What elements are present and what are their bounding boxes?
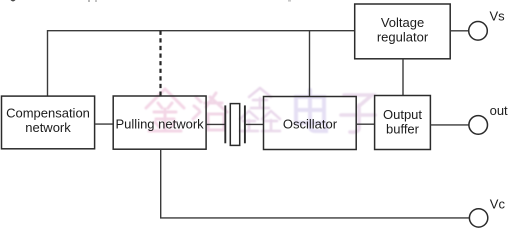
svg-text:Output: Output [383, 107, 422, 122]
svg-text:out: out [490, 103, 508, 118]
svg-text:buffer: buffer [386, 122, 420, 137]
watermark char dian [296, 90, 326, 131]
wire output buffer to out terminal [430, 124, 468, 126]
svg-text:Vc: Vc [490, 197, 506, 212]
svg-text:Voltage: Voltage [381, 15, 424, 30]
svg-text:Pulling network: Pulling network [116, 117, 205, 132]
block pulling network [113, 96, 206, 149]
svg-text:Oscillator: Oscillator [283, 117, 338, 132]
wire voltage regulator to output buffer [402, 59, 404, 96]
watermark char luo [193, 93, 227, 130]
svg-text:network: network [25, 120, 71, 135]
watermark [146, 88, 375, 132]
block oscillator [264, 97, 357, 150]
caption fragment [95, 0, 97, 2]
block output buffer [375, 96, 431, 150]
svg-text:Vs: Vs [490, 9, 506, 24]
block compensation network [2, 96, 95, 149]
watermark char zi [341, 95, 375, 132]
terminal Vs [469, 22, 488, 41]
wire pulling network to Vc terminal [161, 149, 470, 218]
wire oscillator to output buffer [356, 123, 374, 125]
wire voltage regulator to Vs terminal [450, 30, 469, 32]
terminal Vc [469, 209, 487, 227]
wire crystal to oscillator [245, 123, 264, 125]
block voltage regulator [355, 4, 451, 59]
crystal resonator Y1 [225, 104, 245, 146]
caption fragment top-left [11, 0, 16, 2]
caption fragment [288, 0, 291, 2]
wire top bus [48, 30, 355, 32]
wire bus to oscillator [309, 31, 311, 97]
wire dashed bus to pulling network [159, 31, 161, 96]
svg-text:Compensation: Compensation [6, 106, 90, 121]
watermark char xin [240, 88, 280, 131]
wire bus to compensation network [47, 30, 49, 96]
terminal out [469, 116, 488, 135]
svg-text:regulator: regulator [377, 30, 429, 45]
wire pulling to crystal [206, 123, 225, 125]
wire compensation to pulling [95, 123, 114, 125]
caption fragment [88, 0, 90, 2]
watermark char jin [146, 89, 184, 131]
